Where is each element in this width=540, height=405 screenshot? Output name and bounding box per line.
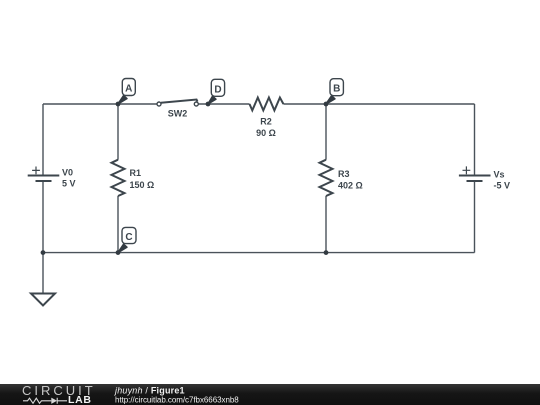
svg-text:5 V: 5 V <box>62 179 76 189</box>
resistor R1 <box>112 160 125 196</box>
svg-text:A: A <box>125 84 132 95</box>
wire right rail <box>474 104 476 253</box>
svg-text:LAB: LAB <box>68 394 92 405</box>
wire ground drop <box>42 253 44 294</box>
logo symbol <box>23 398 67 404</box>
svg-text:V0: V0 <box>62 168 73 178</box>
svg-text:SW2: SW2 <box>168 109 188 119</box>
svg-text:B: B <box>333 84 340 95</box>
svg-text:Vs: Vs <box>494 170 505 180</box>
junction dot left-bottom <box>41 250 46 255</box>
footer bar <box>0 384 540 405</box>
wire top rail <box>43 103 475 105</box>
switch SW2 <box>157 100 198 119</box>
svg-text:R1: R1 <box>130 168 142 178</box>
svg-text:C: C <box>125 232 132 243</box>
svg-text:402 Ω: 402 Ω <box>338 181 363 191</box>
battery V0 <box>28 167 60 182</box>
battery Vs <box>459 166 491 181</box>
resistor R2 <box>250 98 284 111</box>
wire R3 column <box>325 104 327 253</box>
svg-text:D: D <box>214 84 221 95</box>
ground <box>31 294 55 306</box>
svg-text:90 Ω: 90 Ω <box>256 128 276 138</box>
node D <box>206 79 225 106</box>
node C <box>116 227 136 255</box>
node A <box>116 79 136 107</box>
wire left rail <box>42 104 44 253</box>
svg-text:-5 V: -5 V <box>494 181 511 191</box>
svg-text:http://circuitlab.com/c7fbx666: http://circuitlab.com/c7fbx6663xnb8 <box>115 395 239 404</box>
junction dot R3-bottom <box>324 250 329 255</box>
svg-text:R2: R2 <box>260 117 272 127</box>
svg-text:R3: R3 <box>338 169 350 179</box>
svg-text:jhuynh / Figure1: jhuynh / Figure1 <box>114 385 185 395</box>
svg-text:150 Ω: 150 Ω <box>130 180 155 190</box>
resistor R3 <box>320 160 333 196</box>
node B <box>324 79 344 107</box>
wire R1 column <box>117 104 119 253</box>
wire bottom rail <box>43 252 475 254</box>
